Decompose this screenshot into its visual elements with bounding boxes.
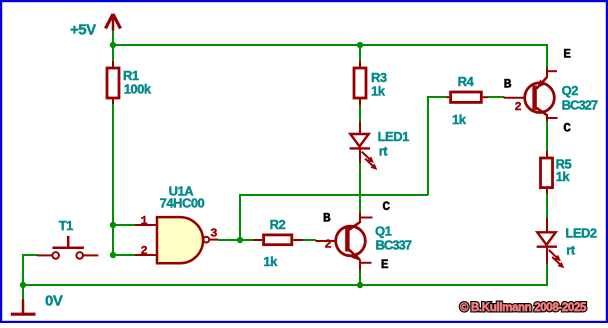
- pushbutton T1: [37, 218, 98, 259]
- wire LED2 to ground rail: [546, 264, 548, 286]
- wire R4 to Q2 base: [488, 96, 505, 98]
- svg-text:+5V: +5V: [70, 22, 96, 39]
- svg-text:3: 3: [210, 227, 217, 241]
- wire output riser: [239, 194, 241, 240]
- svg-text:LED1: LED1: [378, 129, 410, 144]
- svg-text:Q1: Q1: [375, 223, 392, 238]
- wire R2 to Q1 base: [303, 239, 316, 241]
- resistor R4: [447, 74, 489, 127]
- wire R1 top: [112, 44, 114, 63]
- svg-text:rt: rt: [566, 242, 576, 257]
- wire R1 bottom: [112, 104, 114, 255]
- transistor Q1 BC337: [316, 199, 412, 272]
- transistor Q2 BC327: [504, 47, 598, 136]
- junction Q1 emitter ground: [357, 282, 363, 288]
- LED1 rt: [350, 122, 410, 170]
- svg-text:1k: 1k: [556, 169, 571, 184]
- resistor R1: [107, 61, 152, 105]
- svg-text:BC327: BC327: [562, 97, 598, 112]
- svg-text:E: E: [563, 47, 571, 62]
- junction ground left: [20, 282, 26, 288]
- wire left drop: [22, 254, 24, 285]
- wire ground stem: [22, 285, 24, 300]
- junction gate output: [237, 237, 243, 243]
- wire to gate pin 2: [112, 254, 135, 256]
- wire R5 to LED2: [546, 194, 548, 219]
- svg-text:C: C: [563, 121, 571, 136]
- junction R3 top: [357, 42, 363, 48]
- resistor R2: [254, 217, 304, 269]
- junction pin2 node: [110, 252, 116, 258]
- svg-text:E: E: [381, 257, 389, 272]
- wire Q2 collector down: [546, 121, 548, 152]
- wire Q1 collector up: [359, 194, 361, 212]
- wire Q1 emitter down: [359, 270, 361, 286]
- wire to R4 left: [427, 96, 447, 98]
- wire R3 top: [359, 44, 361, 63]
- svg-text:rt: rt: [379, 144, 389, 159]
- svg-text:T1: T1: [59, 218, 73, 233]
- svg-text:BC337: BC337: [376, 238, 412, 253]
- ground symbol 0V: [11, 293, 63, 315]
- junction power: [110, 42, 116, 48]
- wire riser to R4: [427, 96, 429, 195]
- svg-text:C: C: [382, 199, 390, 214]
- wire button left: [22, 254, 38, 256]
- svg-text:R4: R4: [458, 74, 475, 89]
- wire to gate pin 1: [112, 224, 135, 226]
- wire power stem: [112, 29, 114, 45]
- nand gate U1A 74HC00: [135, 183, 219, 263]
- wire output horizontal: [239, 194, 428, 196]
- svg-text:1k: 1k: [452, 112, 467, 127]
- svg-text:2: 2: [141, 244, 148, 258]
- svg-text:1: 1: [141, 214, 148, 228]
- svg-text:B: B: [323, 211, 331, 226]
- svg-text:LED2: LED2: [565, 226, 597, 241]
- wire R3 to LED1: [359, 105, 361, 123]
- power symbol +5V: [70, 14, 121, 39]
- svg-text:74HC00: 74HC00: [160, 196, 205, 211]
- wire Q2 emitter top: [546, 44, 548, 68]
- wire gate output: [218, 239, 254, 241]
- svg-text:R2: R2: [270, 217, 286, 232]
- ground rail: [23, 284, 547, 286]
- svg-text:© B.Kullmann 2008-2025: © B.Kullmann 2008-2025: [460, 302, 587, 314]
- wire LED1 to collector: [359, 163, 361, 212]
- svg-text:Q2: Q2: [562, 83, 579, 98]
- svg-text:100k: 100k: [124, 82, 152, 97]
- svg-text:0V: 0V: [45, 293, 63, 310]
- resistor R5: [541, 151, 572, 195]
- svg-text:B: B: [504, 77, 512, 92]
- svg-text:2: 2: [515, 100, 522, 114]
- junction pin1 node: [110, 222, 116, 228]
- svg-text:1k: 1k: [371, 84, 386, 99]
- svg-text:1k: 1k: [263, 254, 278, 269]
- wire +5V rail top: [113, 44, 547, 46]
- svg-text:2: 2: [325, 238, 332, 252]
- LED2 rt: [537, 218, 597, 268]
- copyright text: [460, 302, 587, 314]
- resistor R3: [354, 61, 387, 106]
